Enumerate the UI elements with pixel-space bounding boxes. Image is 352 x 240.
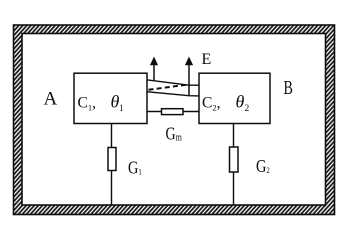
wire G2 to wall bbox=[233, 172, 235, 205]
resistor Gm bbox=[162, 109, 184, 115]
svg-text:2: 2 bbox=[245, 104, 250, 114]
svg-text:C2,: C2, bbox=[202, 95, 220, 113]
thermopile dashed centerline bbox=[149, 85, 188, 90]
resistor G1 bbox=[108, 148, 116, 171]
svg-text:θ: θ bbox=[236, 92, 245, 112]
svg-text:E: E bbox=[202, 51, 212, 68]
svg-text:C1,: C1, bbox=[78, 95, 96, 113]
thermopile top wire bbox=[147, 80, 199, 85]
enclosure wall: hatched frame bbox=[14, 25, 335, 215]
resistor G2 bbox=[230, 147, 239, 172]
svg-text:B: B bbox=[284, 77, 293, 99]
body A box (C1) bbox=[74, 73, 147, 123]
wire A to G1 bbox=[111, 124, 113, 148]
wire G1 to wall bbox=[111, 171, 113, 206]
svg-text:A: A bbox=[44, 89, 58, 110]
wire B to G2 bbox=[233, 124, 235, 147]
thermopile bottom wire bbox=[147, 92, 199, 96]
arrow left bbox=[150, 57, 158, 81]
wire between boxes (Gm link) bbox=[147, 111, 199, 113]
arrow right bbox=[185, 57, 193, 97]
body B box (C2) bbox=[199, 73, 270, 123]
svg-text:1: 1 bbox=[119, 104, 124, 114]
